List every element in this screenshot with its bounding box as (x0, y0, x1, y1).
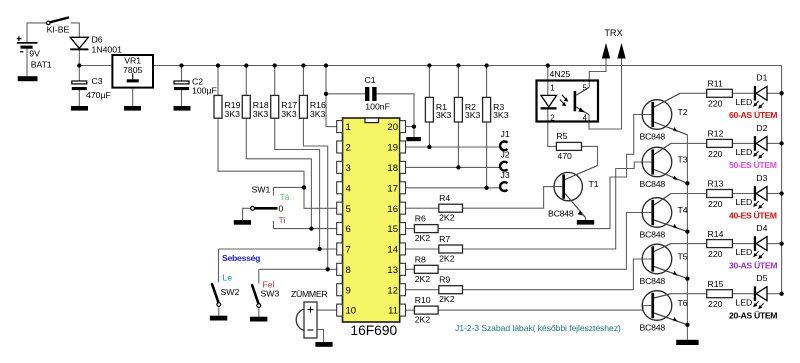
wire rail to R17 (274, 66, 276, 96)
svg-text:220: 220 (708, 199, 723, 209)
resistor R6 2K2 (414, 225, 438, 233)
wire C2 bottom to ground (181, 90, 183, 106)
svg-text:1N4001: 1N4001 (92, 44, 123, 54)
svg-text:R4: R4 (439, 193, 450, 203)
svg-text:R11: R11 (708, 79, 723, 89)
node Ti junction (309, 226, 313, 230)
svg-text:10: 10 (346, 306, 357, 317)
svg-text:3K3: 3K3 (253, 109, 269, 119)
node Le junction (317, 247, 321, 251)
svg-text:T2: T2 (678, 107, 688, 117)
wire LED D3 to rail (767, 193, 782, 195)
wire R2 bottom (457, 122, 459, 167)
svg-text:220: 220 (708, 249, 723, 259)
svg-text:3K3: 3K3 (493, 110, 509, 120)
ground buzzer (315, 342, 332, 347)
transistor T5 BC848 (642, 244, 687, 279)
wire T5 collector to resistor (671, 243, 707, 245)
node rail R1 (427, 63, 431, 67)
ground SW1 (234, 220, 251, 225)
svg-text:BAT1: BAT1 (31, 60, 52, 70)
svg-text:15: 15 (387, 224, 398, 235)
wire R2 top (457, 66, 459, 98)
svg-text:3: 3 (346, 163, 351, 174)
node R1 output (427, 145, 431, 149)
wire LED D2 to rail (767, 142, 782, 144)
svg-text:220: 220 (708, 99, 723, 109)
svg-text:30-AS ÜTEM: 30-AS ÜTEM (729, 260, 777, 270)
pin 1 box (337, 121, 343, 133)
svg-text:7805: 7805 (123, 65, 142, 75)
resistor R17 3K3 (271, 95, 279, 118)
node D5 rail (779, 292, 783, 296)
wire SW1 common to ground (243, 208, 251, 220)
svg-text:Tá: Tá (280, 192, 290, 202)
wire pin19 to J1 (405, 146, 500, 148)
wire T2 collector to resistor (680, 92, 707, 94)
resistor R7 2K2 (439, 245, 463, 253)
svg-text:R10: R10 (415, 295, 431, 305)
led D2 (753, 136, 767, 159)
pin 13 box (400, 263, 406, 275)
wire C1 left lead (326, 93, 365, 95)
wire R13 to LED D3 (732, 193, 753, 195)
svg-text:R9: R9 (439, 275, 450, 285)
svg-text:2K2: 2K2 (415, 274, 431, 284)
switch SW2 lever (212, 283, 219, 303)
switch SW1 lever (255, 207, 278, 210)
svg-text:R13: R13 (708, 179, 724, 189)
wire rail to pin1 VDD (326, 66, 337, 127)
wire +5V right rail drop (781, 66, 783, 294)
svg-text:100nF: 100nF (365, 101, 390, 111)
led D1 (753, 86, 767, 109)
wire T4 collector to resistor (671, 193, 707, 195)
svg-text:0: 0 (279, 204, 284, 214)
node T4 emitter junction (685, 229, 689, 233)
resistor R4 2K2 (439, 204, 463, 212)
ground T1 (577, 220, 594, 225)
wire pin16 to R4 (405, 207, 438, 209)
wire battery positive to switch (27, 23, 46, 42)
led D4 (753, 236, 767, 259)
wire common emitter line (686, 135, 688, 325)
svg-text:BC848: BC848 (640, 229, 666, 239)
svg-text:D3: D3 (756, 173, 767, 183)
svg-text:220: 220 (708, 149, 723, 159)
svg-text:9V: 9V (29, 49, 40, 59)
ground battery (18, 76, 38, 81)
svg-text:3K3: 3K3 (436, 110, 452, 120)
svg-text:Le: Le (223, 272, 233, 282)
svg-text:2K2: 2K2 (439, 294, 455, 304)
wire pin15 to R6 (405, 228, 414, 230)
svg-text:D2: D2 (756, 123, 767, 133)
wire rail to R18 (245, 66, 247, 96)
svg-text:9: 9 (346, 285, 351, 296)
wire SW2 drop (218, 249, 220, 282)
pin 16 box (400, 202, 406, 214)
node T6 emitter junction (685, 323, 689, 327)
wire R12 to LED D2 (732, 142, 753, 144)
ground SW2 (210, 316, 227, 321)
svg-text:13: 13 (387, 265, 398, 276)
wire R5 to T1 collector (582, 146, 598, 165)
node rail R17 (273, 63, 277, 67)
node D2 rail (779, 141, 783, 145)
svg-text:BC848: BC848 (640, 179, 666, 189)
node T5 emitter junction (685, 276, 689, 280)
svg-text:2K2: 2K2 (439, 213, 455, 223)
svg-text:1: 1 (550, 84, 555, 93)
svg-text:470: 470 (557, 151, 572, 161)
optocoupler internal transistor (574, 87, 590, 114)
node C2 junction (179, 63, 183, 67)
svg-text:18: 18 (387, 163, 398, 174)
node R3 output (484, 186, 488, 190)
switch SW2 contact (217, 303, 221, 307)
wire R9 to T5 base (463, 259, 652, 290)
wire R19 to pin5 net (218, 118, 337, 208)
ground C2 (174, 106, 191, 111)
svg-text:J1-2-3 Szabad lábak( későbbi f: J1-2-3 Szabad lábak( későbbi fejlesztésh… (455, 323, 621, 333)
node pin20 C1 ground junction (412, 124, 416, 128)
wire SW2 contact to ground (218, 306, 220, 316)
resistor R15 220 (707, 290, 733, 298)
node rail R2 (456, 63, 460, 67)
capacitor C2 100uF (174, 81, 189, 90)
node rail R3 (484, 63, 488, 67)
svg-text:R8: R8 (415, 254, 426, 264)
pin 7 box (337, 243, 343, 255)
svg-text:R14: R14 (708, 229, 724, 239)
pin 10 box (337, 304, 343, 316)
wire pin7 line to SW2 (219, 248, 337, 250)
wire LED D5 to rail (767, 293, 782, 295)
wire TRX left arrow to 4N25 pin5 (589, 58, 606, 88)
svg-text:SW3: SW3 (261, 289, 280, 299)
pin 19 box (400, 141, 406, 153)
wire TRX right arrow to 4N25 pin4 (589, 58, 622, 130)
node rail 4N25 (546, 63, 550, 67)
wire T6 collector to resistor (671, 293, 707, 295)
wire pin11 to R10 (405, 309, 414, 311)
svg-text:3K3: 3K3 (465, 110, 481, 120)
wire pin20 VSS to ground (405, 126, 414, 128)
svg-text:BC848: BC848 (548, 208, 574, 218)
led D3 (753, 186, 767, 209)
svg-text:8: 8 (346, 265, 351, 276)
wire R14 to LED D4 (732, 243, 753, 245)
svg-text:12: 12 (387, 285, 398, 296)
wire R8 to T4 base (438, 213, 651, 270)
svg-text:J3: J3 (501, 170, 510, 180)
resistor R18 3K3 (242, 95, 250, 118)
diode D6 1N4001 (70, 37, 88, 50)
svg-text:LED: LED (735, 147, 752, 157)
optocoupler U2 4N25 box (537, 81, 599, 122)
ground VSS (406, 137, 421, 141)
wire T3 collector to resistor (671, 142, 707, 144)
wire R11 to LED D1 (732, 92, 753, 94)
svg-text:40-ES ÜTEM: 40-ES ÜTEM (729, 210, 777, 220)
wire Ta contact tick (273, 187, 275, 195)
TRX right arrow (617, 43, 625, 59)
node rail R19 (216, 63, 220, 67)
svg-text:3K3: 3K3 (225, 109, 241, 119)
pin 4 box (337, 182, 343, 194)
resistor R12 220 (707, 139, 733, 147)
resistor R5 470 (556, 142, 581, 150)
node R2 output (456, 165, 460, 169)
svg-text:T4: T4 (678, 205, 688, 215)
wire pin13 to R8 (405, 268, 414, 270)
svg-text:1: 1 (346, 122, 351, 133)
svg-text:J1: J1 (501, 129, 510, 139)
resistor R14 220 (707, 240, 733, 248)
wire SW3 contact to ground (258, 307, 260, 317)
ic U1 16F690 body (343, 118, 400, 322)
transistor T1 BC848 (554, 166, 598, 218)
pin 5 box (337, 202, 343, 214)
wire Ti contact to pin6 (274, 228, 337, 230)
svg-text:D6: D6 (92, 34, 103, 44)
wire C3 top (78, 66, 80, 82)
svg-text:D1: D1 (756, 73, 767, 83)
node D4 rail (779, 241, 783, 245)
node Ta junction (302, 185, 306, 189)
wire pin8 line to SW3 (259, 268, 337, 270)
resistor R11 220 (707, 89, 733, 97)
switch SW3 contact (257, 304, 261, 308)
svg-text:4: 4 (583, 114, 588, 123)
pin 8 box (337, 263, 343, 275)
pin 12 box (400, 284, 406, 296)
wire D6 cathode to +5V node (78, 50, 80, 66)
pin 17 box (400, 182, 406, 194)
ground C3 (71, 106, 88, 111)
wire +5V rail into VR1 (79, 65, 112, 67)
resistor R16 3K3 (299, 95, 307, 118)
svg-text:BC848: BC848 (640, 322, 666, 332)
svg-text:C3: C3 (92, 76, 103, 86)
ic notch (365, 118, 379, 123)
svg-text:Sebesség: Sebesség (222, 253, 260, 263)
ground emitter chain (676, 340, 698, 345)
ground VR1 (124, 106, 141, 111)
node T3 emitter junction (685, 181, 689, 185)
svg-text:T6: T6 (678, 298, 688, 308)
svg-text:3K3: 3K3 (281, 109, 297, 119)
buzzer ZUMMER (296, 302, 317, 338)
node D6 C3 junction (77, 63, 81, 67)
resistor R19 3K3 (214, 95, 222, 118)
wire R4 to T1 base (463, 187, 563, 209)
pin 9 box (337, 284, 343, 296)
resistor R8 2K2 (414, 265, 438, 273)
wire R6 to T2 base (438, 115, 651, 229)
svg-text:R7: R7 (439, 234, 450, 244)
node D3 rail (779, 191, 783, 195)
svg-text:SW2: SW2 (221, 287, 240, 297)
svg-text:KI-BE: KI-BE (47, 25, 70, 35)
svg-text:2: 2 (346, 143, 351, 154)
svg-text:J2: J2 (501, 150, 510, 160)
wire SW3 drop (258, 269, 260, 283)
svg-text:D4: D4 (756, 223, 767, 233)
wire R10 to T6 base (438, 306, 651, 311)
svg-text:T1: T1 (589, 179, 599, 189)
ground SW3 (250, 317, 267, 322)
node rail R18 (244, 63, 248, 67)
node D1 rail (779, 91, 783, 95)
resistor R10 2K2 (414, 306, 438, 314)
optocoupler internal LED (541, 95, 569, 110)
wire R18 to Ti node (246, 118, 311, 228)
svg-text:100µF: 100µF (192, 85, 217, 95)
svg-text:BC848: BC848 (640, 276, 666, 286)
svg-text:R12: R12 (708, 129, 724, 139)
wire Ti contact tick (273, 221, 275, 229)
wire LED D4 to rail (767, 243, 782, 245)
wire pin18 to J2 (405, 166, 500, 168)
transistor T3 BC848 (642, 143, 687, 183)
wire rail to 4N25 pin1 (547, 66, 549, 96)
led D5 (753, 286, 767, 309)
svg-text:5: 5 (583, 84, 588, 93)
svg-text:VR1: VR1 (124, 55, 141, 65)
svg-text:5: 5 (346, 204, 351, 215)
svg-text:3K3: 3K3 (310, 109, 326, 119)
svg-text:220: 220 (708, 299, 723, 309)
svg-text:R6: R6 (415, 214, 426, 224)
wire Ta contact to junction (274, 186, 305, 188)
transistor T6 BC848 (642, 291, 687, 325)
svg-text:470µF: 470µF (86, 90, 111, 100)
svg-text:R5: R5 (556, 131, 567, 141)
wire VR1 to ground (132, 88, 134, 107)
resistor R3 3K3 (483, 97, 491, 122)
wire battery negative to ground (26, 49, 28, 76)
connector J2 (500, 162, 507, 171)
svg-text:BC848: BC848 (640, 131, 666, 141)
wire buzzer minus to ground (317, 330, 324, 343)
wire LED D1 to rail (767, 92, 782, 94)
svg-text:11: 11 (388, 306, 398, 317)
pin 11 box (400, 304, 406, 316)
pin 2 box (337, 141, 343, 153)
svg-text:T5: T5 (678, 252, 688, 262)
svg-text:19: 19 (387, 143, 398, 154)
node rail R16 (301, 63, 305, 67)
svg-text:LED: LED (735, 247, 752, 257)
resistor R2 3K3 (454, 97, 462, 122)
wire R3 top (486, 66, 488, 98)
svg-text:LED: LED (735, 97, 752, 107)
wire pin14 to R7 (405, 248, 438, 250)
TRX left arrow (602, 43, 610, 59)
wire C1 right lead to ground (377, 94, 414, 137)
svg-text:6: 6 (346, 224, 351, 235)
svg-text:T3: T3 (678, 155, 688, 165)
wire R15 to LED D5 (732, 293, 753, 295)
svg-text:4: 4 (346, 183, 351, 194)
wire R1 bottom (428, 122, 430, 147)
resistor R9 2K2 (439, 286, 463, 294)
svg-text:17: 17 (387, 183, 398, 194)
svg-text:R15: R15 (708, 279, 724, 289)
svg-text:50-ES ÜTEM: 50-ES ÜTEM (729, 160, 777, 170)
pin 3 box (337, 161, 343, 173)
regulator VR1 7805 (112, 55, 153, 88)
wire +5V rail from VR1 to right edge (153, 65, 782, 67)
wire R16 to Fel node (303, 118, 327, 269)
wire T1 emitter stub (585, 218, 587, 220)
wire buzzer plus to pin10 (317, 309, 337, 311)
svg-text:7: 7 (346, 245, 351, 256)
svg-text:D5: D5 (756, 273, 767, 283)
svg-text:C1: C1 (365, 75, 376, 85)
svg-text:Ti: Ti (279, 215, 286, 225)
wire 4N25 pin2 to R5 (548, 109, 557, 146)
pin 6 box (337, 223, 343, 235)
svg-text:LED: LED (735, 197, 752, 207)
wire R17 to Le node (275, 118, 320, 249)
switch KI-BE (47, 17, 70, 24)
svg-text:20: 20 (387, 122, 398, 133)
transistor T2 BC848 (642, 93, 687, 135)
svg-text:LED: LED (735, 297, 752, 307)
node rail VDD feed (324, 63, 328, 67)
resistor R13 220 (707, 190, 733, 198)
resistor R1 3K3 (425, 97, 433, 122)
wire C2 top (181, 66, 183, 82)
svg-text:20-AS ÜTEM: 20-AS ÜTEM (729, 311, 777, 321)
switch SW1 common contact (251, 206, 255, 210)
svg-text:2K2: 2K2 (439, 254, 455, 264)
switch SW3 lever (252, 284, 259, 304)
pin 14 box (400, 243, 406, 255)
wire rail to R19 (217, 66, 219, 96)
node VDD C1 junction (324, 92, 328, 96)
connector J1 (500, 141, 507, 150)
wire R7 to T3 base (463, 162, 652, 249)
svg-text:60-AS ÜTEM: 60-AS ÜTEM (729, 110, 777, 120)
svg-text:2K2: 2K2 (415, 233, 431, 243)
wire R3 bottom (486, 122, 488, 188)
connector J3 (500, 182, 507, 191)
svg-text:16: 16 (387, 204, 398, 215)
wire C3 bottom to ground (78, 90, 80, 106)
svg-text:ZÜMMER: ZÜMMER (291, 289, 327, 299)
svg-text:14: 14 (387, 245, 398, 256)
wire switch to diode D6 (71, 23, 80, 37)
wire R1 top (428, 66, 430, 98)
wire emitter line to ground (686, 325, 688, 340)
pin 15 box (400, 223, 406, 235)
svg-text:SW1: SW1 (252, 185, 271, 195)
pin 20 box (400, 121, 406, 133)
capacitor C3 470uF (72, 81, 87, 90)
wire pin17 to J3 (405, 187, 500, 189)
node Fel junction (326, 267, 330, 271)
wire pin12 to R9 (405, 289, 438, 291)
transistor T4 BC848 (642, 194, 687, 232)
pin 18 box (400, 161, 406, 173)
svg-text:16F690: 16F690 (350, 323, 397, 338)
battery BAT1 9V (17, 36, 38, 52)
svg-text:TRX: TRX (604, 28, 622, 38)
